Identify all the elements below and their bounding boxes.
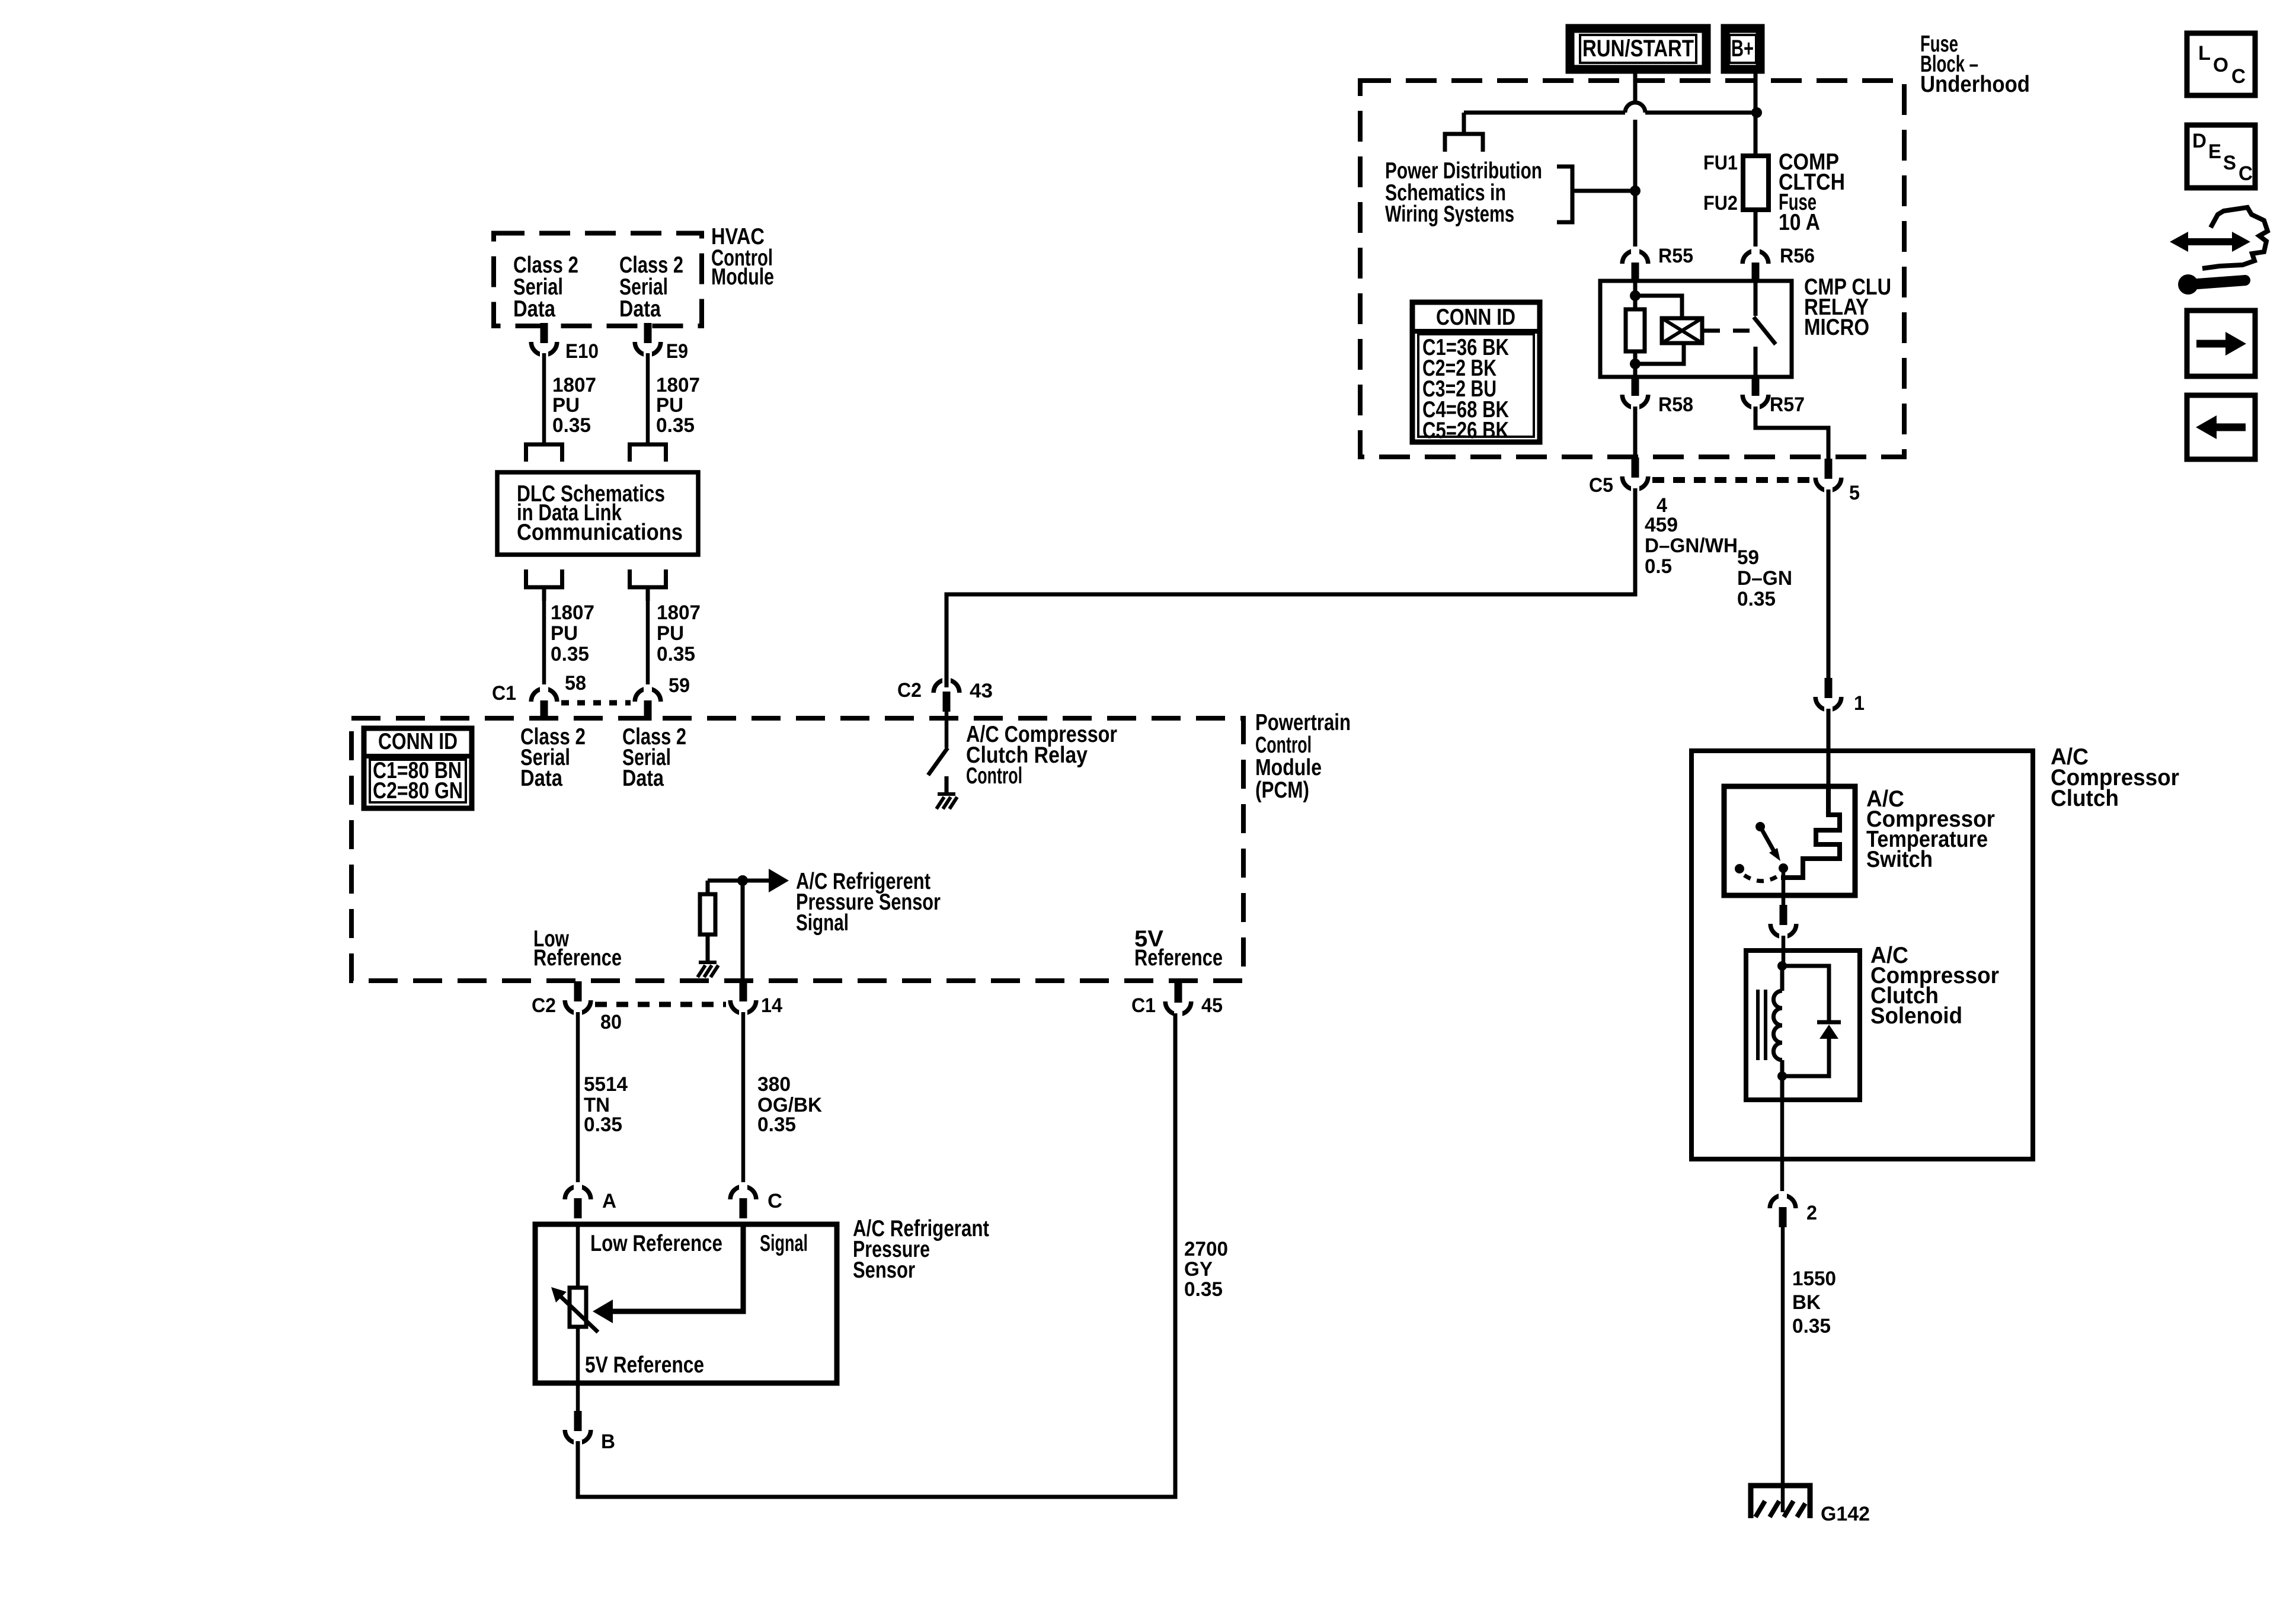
svg-text:Module: Module (711, 264, 774, 290)
power distribution side bracket (1557, 167, 1635, 222)
dotted pair line 58-59 (561, 700, 631, 706)
label FU1 (1703, 152, 1738, 174)
DLC Schematics box (497, 472, 698, 555)
svg-text:S: S (2223, 152, 2236, 174)
connector pin A (565, 1182, 591, 1218)
label E10 (565, 340, 599, 363)
svg-text:E9: E9 (666, 340, 688, 363)
solenoid core bars (1758, 990, 1766, 1060)
connector R56 (1742, 247, 1769, 283)
solenoid coil (1773, 966, 1782, 1076)
svg-text:1807: 1807 (552, 374, 596, 396)
connector C5 pin 4 (1622, 457, 1648, 494)
svg-text:R57: R57 (1770, 393, 1805, 416)
wire 59 D-GN (1827, 489, 1831, 679)
svg-text:Control: Control (1255, 732, 1312, 758)
Low Reference label (sensor) (590, 1231, 722, 1256)
label R55 (1658, 245, 1693, 267)
svg-text:59: 59 (1737, 546, 1759, 569)
svg-text:Signal: Signal (796, 910, 849, 936)
diode (1817, 1022, 1841, 1039)
svg-text:B: B (601, 1430, 615, 1453)
connector pin 5 (1815, 459, 1841, 495)
label 58 (565, 672, 586, 695)
vehicle navigation icon (2170, 207, 2268, 295)
junction dot on B+ wire (1751, 107, 1762, 118)
wire fuse to R56 (1754, 210, 1758, 252)
svg-text:0.35: 0.35 (1184, 1278, 1223, 1301)
svg-text:Data: Data (622, 766, 664, 791)
relay coil box (1662, 318, 1702, 343)
wire DLC to PCM pin 59 (646, 601, 650, 687)
CMP CLU RELAY MICRO relay box (1600, 281, 1792, 377)
wire label 1807 PU 0.35 (right lower) (657, 601, 701, 665)
svg-text:1: 1 (1854, 692, 1865, 715)
svg-text:FU2: FU2 (1703, 192, 1738, 215)
svg-text:5: 5 (1849, 482, 1860, 504)
svg-text:0.35: 0.35 (584, 1113, 622, 1136)
temperature switch heater element (1781, 788, 1840, 878)
label 5 (1849, 482, 1860, 504)
Class 2 Serial Data label (PCM right) (622, 724, 686, 791)
svg-text:Signal: Signal (760, 1231, 808, 1256)
wire crossover hop (1625, 103, 1645, 113)
wire E9 to DLC (646, 353, 650, 444)
relay coil wire lower (1633, 351, 1638, 379)
RUN/START feed box (1570, 28, 1706, 69)
svg-text:CONN ID: CONN ID (378, 729, 458, 754)
svg-text:PU: PU (657, 622, 684, 645)
svg-text:O: O (2213, 54, 2228, 76)
resistor (PCM internal) (700, 881, 715, 962)
connector pin 14 (730, 981, 756, 1017)
relay mechanical link dashed (1702, 329, 1750, 333)
label 59 (PCM top) (669, 674, 690, 697)
svg-text:Switch: Switch (1866, 847, 1933, 872)
svg-text:Data: Data (619, 296, 661, 322)
wire RUN/START down (1633, 73, 1638, 252)
svg-text:380: 380 (757, 1073, 791, 1096)
svg-text:80: 80 (600, 1011, 622, 1033)
svg-text:R56: R56 (1780, 245, 1815, 267)
5V Reference label (PCM) (1134, 926, 1223, 971)
A/C Compressor Clutch Solenoid box (1746, 950, 1860, 1100)
svg-text:C5: C5 (1589, 474, 1613, 497)
svg-text:FU1: FU1 (1703, 152, 1738, 174)
temperature switch contacts (1735, 822, 1788, 873)
LOC icon letters (2198, 42, 2246, 88)
temperature switch lever (1760, 827, 1780, 861)
svg-text:Reference: Reference (533, 945, 622, 971)
label C1 (pin 45) (1131, 994, 1156, 1017)
DLC Schematics label (517, 481, 683, 545)
wire 5514 (576, 1012, 580, 1185)
svg-text:Wiring Systems: Wiring Systems (1385, 201, 1514, 227)
Power Distribution Schematics label (1385, 158, 1542, 227)
junction dot relay lower (1630, 359, 1641, 369)
label A (602, 1190, 616, 1212)
DESC icon box (2187, 125, 2255, 188)
svg-text:MICRO: MICRO (1804, 315, 1869, 340)
label C5 (1589, 474, 1613, 497)
Powertrain Control Module (PCM) label (1255, 710, 1351, 803)
LOC icon box (2187, 33, 2255, 95)
connector pin B (565, 1383, 591, 1447)
A/C Refrigerent Pressure Sensor Signal label (796, 869, 941, 936)
next-page arrow icon box (2187, 311, 2255, 376)
svg-text:D–GN/WH: D–GN/WH (1645, 535, 1738, 557)
junction dot solenoid top (1777, 961, 1787, 971)
relay resistor (1626, 309, 1645, 351)
wire R57 jog to pin 5 (1755, 407, 1828, 460)
svg-text:E10: E10 (565, 340, 599, 363)
svg-text:C: C (768, 1190, 782, 1212)
svg-text:Communications: Communications (517, 520, 683, 545)
temperature switch dashed travel arc (1744, 875, 1778, 881)
svg-text:CONN ID: CONN ID (1436, 305, 1515, 330)
svg-text:C: C (2231, 65, 2246, 88)
A/C Compressor Clutch box (1691, 751, 2033, 1159)
connector R58 (1622, 376, 1648, 412)
solenoid diode branch (1782, 966, 1829, 1076)
signal feedback wire (613, 1227, 743, 1311)
wire label 59 D-GN 0.35 (1737, 546, 1792, 610)
wire label 2700 GY 0.35 (1184, 1238, 1228, 1301)
svg-text:14: 14 (761, 994, 782, 1017)
relay coil wire upper (1633, 283, 1638, 309)
svg-text:5V Reference: 5V Reference (585, 1352, 704, 1378)
CMP CLU RELAY MICRO label (1804, 274, 1891, 340)
ground (relay control) (936, 794, 957, 809)
connector switch-solenoid (1770, 905, 1796, 941)
label C2 (pin 43) (897, 679, 922, 702)
Class 2 Serial Data label (right) (619, 252, 683, 322)
svg-text:Data: Data (520, 766, 562, 791)
connector C2 pin 80 (565, 981, 591, 1017)
HVAC Control Module dashed box (494, 233, 702, 327)
svg-text:58: 58 (565, 672, 586, 695)
wire refrigerant signal junction (708, 879, 770, 883)
connector E10 (531, 323, 557, 359)
label 14 (761, 994, 782, 1017)
DLC top-left receptacle bracket (526, 444, 562, 462)
svg-text:BK: BK (1792, 1291, 1821, 1314)
DLC bottom-right receptacle bracket (630, 569, 666, 601)
wire 380 (741, 1012, 746, 1185)
Low Reference label (533, 926, 622, 971)
svg-text:PU: PU (656, 394, 683, 417)
power distribution pointer bracket (1445, 113, 1483, 152)
label C (768, 1190, 782, 1212)
wire label 1807 PU 0.35 (left upper) (552, 374, 596, 437)
svg-text:45: 45 (1201, 994, 1223, 1017)
A/C Compressor Temperature Switch label (1866, 786, 1995, 872)
svg-text:D–GN: D–GN (1737, 567, 1792, 590)
svg-text:A: A (602, 1190, 616, 1212)
svg-text:Control: Control (966, 763, 1022, 789)
label B (601, 1430, 615, 1453)
junction dot signal (737, 875, 748, 886)
svg-text:0.35: 0.35 (552, 414, 591, 437)
potentiometer arrow (551, 1287, 598, 1332)
svg-text:Solenoid: Solenoid (1870, 1003, 1962, 1029)
wire switch to solenoid (1782, 868, 1786, 906)
svg-text:C: C (2239, 162, 2253, 185)
connector C1 pin 45 (1165, 982, 1191, 1019)
ground G142 (1751, 1486, 1810, 1518)
label 2 (1806, 1202, 1817, 1224)
B+ feed box (1725, 28, 1760, 69)
svg-text:R58: R58 (1658, 393, 1693, 416)
dotted pair line 80-14 (595, 1002, 726, 1007)
svg-text:(PCM): (PCM) (1255, 777, 1309, 803)
wire DLC to PCM pin 58 (542, 601, 546, 687)
wire label 5514 TN 0.35 (584, 1073, 628, 1136)
Class 2 Serial Data label (left) (513, 252, 578, 322)
svg-text:C5=26 BK: C5=26 BK (1422, 418, 1509, 443)
RUN/START label (1582, 36, 1694, 62)
5V Reference label (sensor) (585, 1352, 704, 1378)
label 4 (1657, 494, 1667, 517)
connector R57 (1742, 376, 1769, 412)
A/C Compressor Temperature Switch box (1724, 786, 1855, 895)
wire label 380 OG/BK 0.35 (757, 1073, 822, 1136)
svg-text:Module: Module (1255, 755, 1322, 780)
svg-text:RUN/START: RUN/START (1582, 36, 1694, 62)
Fuse Block Underhood dashed box (1360, 81, 1904, 457)
DESC icon letters (2192, 130, 2253, 185)
svg-text:10 A: 10 A (1779, 210, 1820, 235)
label 45 (1201, 994, 1223, 1017)
label C1 (PCM top) (492, 682, 516, 705)
A/C Compressor Clutch label (2051, 744, 2179, 811)
prev-page arrow icon box (2187, 395, 2255, 459)
svg-text:2: 2 (1806, 1202, 1817, 1224)
wire pin 1 to clutch (1827, 709, 1831, 788)
dotted pair line 4-5 (1652, 477, 1812, 483)
label R58 (1658, 393, 1693, 416)
wire label 1550 BK 0.35 (1792, 1268, 1836, 1337)
svg-text:C2: C2 (532, 994, 556, 1017)
label R57 (1770, 393, 1805, 416)
label 1 (1854, 692, 1865, 715)
fuse block CONN ID table (1412, 302, 1540, 442)
wire label 1807 PU 0.35 (right upper) (656, 374, 700, 437)
HVAC Control Module label (711, 224, 774, 290)
wire signal to pin 14 (741, 881, 745, 982)
wire label 459 D-GN/WH 0.5 (1645, 514, 1738, 578)
svg-text:Underhood: Underhood (1920, 72, 2030, 97)
svg-text:Low Reference: Low Reference (590, 1231, 722, 1256)
PCM CONN ID table (364, 728, 472, 808)
A/C Refrigerant Pressure Sensor box (535, 1224, 837, 1383)
wire horizontal to B+ wire (1464, 111, 1757, 115)
svg-text:Powertrain: Powertrain (1255, 710, 1351, 735)
svg-text:L: L (2198, 42, 2211, 65)
wire 1550 BK (1781, 1227, 1785, 1512)
wire R58 to C5 (1633, 407, 1638, 460)
connector R55 (1622, 247, 1648, 283)
connector pin 1 (1815, 678, 1841, 714)
svg-text:59: 59 (669, 674, 690, 697)
PCM CONN ID table text (373, 729, 463, 804)
Fuse Block Underhood label (1920, 31, 2030, 97)
svg-text:Clutch: Clutch (2051, 786, 2119, 811)
svg-text:0.35: 0.35 (656, 414, 695, 437)
label 43 (970, 680, 993, 702)
arrowhead signal (769, 869, 789, 892)
svg-text:2700: 2700 (1184, 1238, 1228, 1260)
svg-text:GY: GY (1184, 1258, 1213, 1281)
connector pin C (730, 1182, 756, 1218)
junction dot solenoid bottom (1777, 1071, 1787, 1081)
svg-text:C1: C1 (492, 682, 516, 705)
wire B+ down (1754, 73, 1758, 156)
svg-text:C1: C1 (1131, 994, 1156, 1017)
svg-text:1807: 1807 (657, 601, 701, 624)
connector pin 2 (1770, 1191, 1796, 1227)
wire E10 to DLC (542, 353, 546, 444)
svg-text:Data: Data (513, 296, 555, 322)
fuse COMP CLTCH (1743, 156, 1769, 210)
arrowhead feedback (593, 1300, 613, 1323)
COMP CLTCH Fuse 10 A label (1779, 149, 1845, 235)
Class 2 Serial Data label (PCM left) (520, 724, 586, 791)
svg-text:0.35: 0.35 (657, 643, 695, 665)
wire 2700 GY (578, 1013, 1175, 1497)
potentiometer (sensor) (570, 1227, 586, 1381)
A/C Compressor Clutch Solenoid label (1870, 943, 1999, 1029)
A/C compressor clutch relay control switch (928, 712, 948, 793)
ground (PCM internal) (698, 962, 718, 977)
svg-text:0.5: 0.5 (1645, 555, 1672, 578)
label E9 (666, 340, 688, 363)
svg-text:C2=80 GN: C2=80 GN (373, 778, 463, 804)
label G142 (1821, 1503, 1870, 1525)
connector E9 (635, 323, 661, 359)
wire label 1807 PU 0.35 (left lower) (551, 601, 594, 665)
relay coil branch (1635, 296, 1684, 364)
relay switch (1754, 281, 1776, 379)
A/C Compressor Clutch Relay Control label (966, 722, 1117, 789)
connector C2 pin 43 (933, 676, 960, 712)
junction dot relay upper (1630, 290, 1641, 301)
label C2 (pin 80) (532, 994, 556, 1017)
svg-text:5514: 5514 (584, 1073, 628, 1096)
wire 459 D-GN/WH (946, 488, 1635, 687)
svg-text:1550: 1550 (1792, 1268, 1836, 1290)
svg-text:0.35: 0.35 (757, 1113, 796, 1136)
prev-page arrow (2196, 415, 2246, 439)
connector C1 pin 58 (531, 684, 557, 721)
svg-text:D: D (2192, 130, 2207, 152)
svg-text:1807: 1807 (551, 601, 594, 624)
Powertrain Control Module dashed box (351, 718, 1243, 981)
junction dot on RUN/START wire (1630, 185, 1641, 196)
svg-text:0.35: 0.35 (1737, 588, 1776, 610)
fuse block CONN ID table text (1422, 305, 1515, 443)
svg-text:C2: C2 (897, 679, 922, 702)
label FU2 (1703, 192, 1738, 215)
next-page arrow (2196, 332, 2246, 356)
svg-text:0.35: 0.35 (1792, 1315, 1831, 1337)
svg-text:PU: PU (551, 622, 578, 645)
wire into solenoid (1782, 936, 1786, 967)
DLC bottom-left receptacle bracket (526, 569, 562, 601)
svg-text:Sensor: Sensor (853, 1257, 915, 1283)
svg-text:B+: B+ (1731, 36, 1754, 62)
DLC top-right receptacle bracket (630, 444, 666, 462)
svg-text:459: 459 (1645, 514, 1678, 536)
svg-text:R55: R55 (1658, 245, 1693, 267)
svg-text:Reference: Reference (1134, 945, 1223, 971)
B+ label (1731, 36, 1754, 62)
A/C Refrigerant Pressure Sensor label (853, 1216, 989, 1283)
connector pin 59 (635, 684, 661, 721)
svg-text:PU: PU (552, 394, 580, 417)
Signal label (sensor) (760, 1231, 808, 1256)
wire solenoid to pin 2 (1780, 1076, 1785, 1192)
svg-text:1807: 1807 (656, 374, 700, 396)
label 80 (600, 1011, 622, 1033)
label R56 (1780, 245, 1815, 267)
svg-text:E: E (2208, 140, 2221, 163)
svg-text:G142: G142 (1821, 1503, 1870, 1525)
svg-text:43: 43 (970, 680, 993, 702)
svg-text:0.35: 0.35 (551, 643, 589, 665)
